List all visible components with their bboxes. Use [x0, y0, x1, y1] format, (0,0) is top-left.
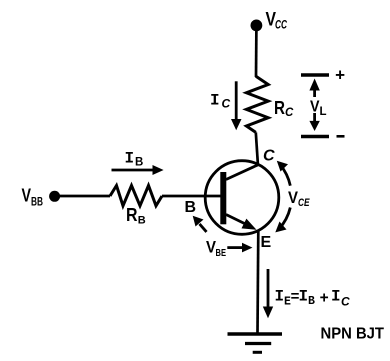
transistor Q1 body circle	[205, 161, 279, 235]
svg-text:I: I	[210, 92, 220, 110]
arrow VL up	[309, 79, 319, 98]
svg-text:+: +	[320, 290, 329, 308]
wire RB to base	[162, 195, 221, 198]
label VBE	[206, 239, 226, 260]
label IB	[125, 150, 144, 169]
svg-text:I: I	[331, 288, 341, 306]
svg-text:BB: BB	[31, 197, 43, 209]
resistor RB	[110, 186, 162, 206]
svg-text:BE: BE	[216, 247, 227, 259]
svg-text:I: I	[125, 150, 135, 168]
ground symbol	[228, 334, 283, 352]
svg-text:NPN BJT: NPN BJT	[321, 326, 385, 343]
wire RC to collector junction	[256, 132, 258, 165]
arrow IB current	[112, 165, 164, 175]
arc VCE upper with arrowhead	[277, 161, 291, 186]
svg-text:+: +	[335, 68, 345, 87]
svg-text:V: V	[288, 189, 298, 207]
label VCE	[288, 189, 310, 209]
svg-text:C: C	[263, 148, 275, 165]
resistor RC	[246, 76, 268, 132]
VL bottom bar	[301, 135, 329, 138]
svg-text:R: R	[274, 98, 285, 118]
label VL	[310, 99, 327, 119]
svg-text:E: E	[261, 234, 272, 251]
svg-text:V: V	[206, 239, 216, 257]
arc VCE lower with arrowhead	[275, 208, 290, 233]
label IE equation	[275, 288, 351, 309]
arrow IC current	[231, 81, 242, 130]
svg-text:C: C	[222, 97, 231, 111]
node VBB terminal dot	[49, 191, 60, 202]
svg-text:C: C	[341, 295, 350, 309]
wire emitter to ground	[256, 230, 259, 333]
arrow IE current	[263, 269, 273, 318]
label IC	[210, 92, 231, 111]
transistor Q1 emitter lead with arrow	[226, 215, 257, 230]
svg-text:V: V	[22, 186, 32, 206]
svg-text:C: C	[285, 107, 294, 119]
svg-text:B: B	[138, 215, 146, 227]
label VBB	[22, 186, 44, 209]
arrow VBE toward base with arrowhead	[193, 216, 207, 232]
arrow VL down	[309, 113, 319, 131]
svg-text:I: I	[275, 288, 285, 306]
transistor Q1 base bar	[220, 172, 226, 224]
arrow VBE toward emitter	[227, 243, 252, 253]
VL top bar	[301, 73, 329, 76]
label RC	[274, 98, 294, 119]
svg-text:CE: CE	[298, 197, 310, 209]
label VCC	[266, 10, 288, 32]
label minus	[337, 135, 345, 138]
svg-text:I: I	[299, 288, 309, 306]
svg-text:R: R	[126, 205, 138, 225]
wire VCC to RC	[255, 28, 258, 77]
node VCC terminal dot	[251, 20, 263, 32]
wire VBB to RB	[57, 195, 110, 198]
transistor Q1 collector lead	[226, 165, 258, 180]
svg-text:V: V	[310, 99, 320, 116]
label RB	[126, 205, 146, 227]
svg-text:L: L	[320, 106, 327, 118]
svg-text:B: B	[185, 199, 197, 216]
svg-text:B: B	[308, 295, 315, 308]
svg-text:B: B	[135, 157, 143, 169]
svg-text:CC: CC	[275, 20, 287, 32]
